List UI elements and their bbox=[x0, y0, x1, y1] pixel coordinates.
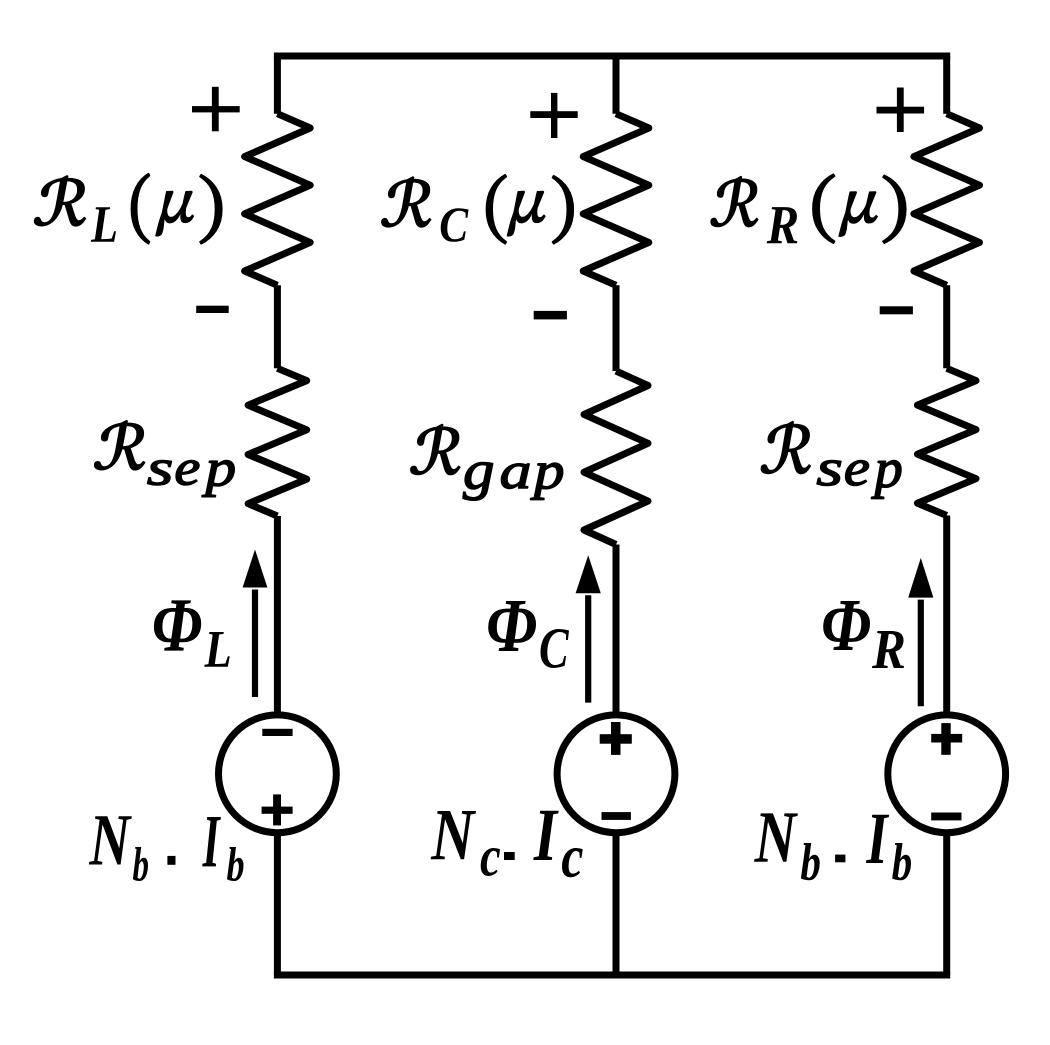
label R_R(mu) bbox=[711, 174, 906, 243]
wire R to source bbox=[943, 516, 950, 714]
wire mid C bbox=[613, 285, 620, 371]
minus label C bbox=[534, 311, 567, 320]
wire R source to rail bbox=[943, 835, 950, 976]
dot Nc.Ic bbox=[504, 852, 515, 860]
dot Nb.Ib R bbox=[835, 855, 845, 863]
source C plus top bbox=[600, 734, 632, 744]
wire top R bbox=[943, 56, 950, 114]
source L plus bottom bbox=[262, 807, 293, 814]
label Phi_L bbox=[154, 600, 230, 666]
label Phi_R bbox=[823, 601, 904, 668]
resistor R_C(mu) bbox=[583, 114, 649, 286]
label R_L(mu) bbox=[34, 174, 221, 244]
wire top rail bbox=[274, 53, 950, 60]
source circle L bbox=[219, 715, 337, 833]
label R_sep right bbox=[761, 421, 901, 498]
label Nc.Ic bbox=[431, 811, 583, 878]
wire C to source bbox=[613, 545, 620, 714]
minus label R bbox=[880, 306, 913, 314]
source circle R bbox=[888, 715, 1006, 833]
source R plus top bbox=[931, 734, 962, 743]
minus label L bbox=[196, 306, 229, 313]
source R minus bottom bbox=[931, 813, 961, 821]
wire mid L bbox=[274, 285, 281, 368]
resistor R_sep R bbox=[917, 368, 976, 515]
wire bottom rail bbox=[274, 972, 950, 979]
PhiC arrow bbox=[585, 595, 591, 702]
wire mid R bbox=[943, 285, 950, 368]
PhiL arrow bbox=[252, 590, 258, 698]
resistor R_gap C bbox=[584, 371, 648, 545]
dot Nb.Ib L bbox=[167, 856, 175, 865]
wire top L bbox=[274, 56, 281, 114]
source circle C bbox=[557, 715, 675, 833]
label R_sep left bbox=[95, 421, 235, 497]
label Nb.Ib left bbox=[89, 816, 244, 881]
plus label R bbox=[877, 107, 925, 114]
resistor R_R(mu) bbox=[914, 114, 980, 286]
wire L to source bbox=[274, 516, 281, 713]
wire top C bbox=[613, 56, 620, 114]
wire C source to rail bbox=[613, 835, 620, 976]
wire L source to rail bbox=[274, 835, 281, 976]
label Phi_C bbox=[488, 601, 569, 668]
label R_gap bbox=[411, 424, 563, 500]
PhiR arrow bbox=[918, 600, 924, 707]
source L minus top bbox=[262, 729, 292, 736]
resistor R_L(mu) bbox=[245, 114, 311, 286]
source C minus bottom bbox=[602, 812, 631, 820]
resistor R_sep L bbox=[248, 368, 307, 516]
plus label C bbox=[530, 111, 577, 118]
plus label L bbox=[192, 106, 240, 112]
label R_C(mu) bbox=[382, 175, 574, 244]
label Nb.Ib right bbox=[754, 813, 911, 880]
